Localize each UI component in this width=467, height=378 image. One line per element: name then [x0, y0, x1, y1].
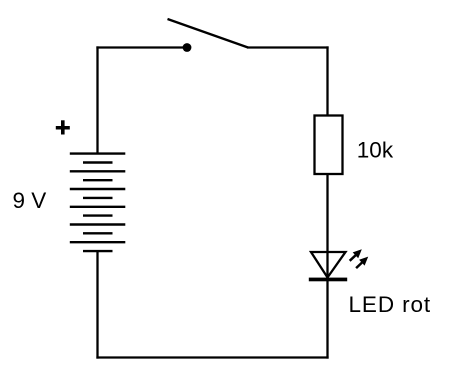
wire battery plus terminal up to top rail — [96, 46, 98, 153]
switch contact dot — [183, 43, 192, 52]
wire down to resistor — [326, 46, 328, 116]
battery plus polarity mark — [56, 120, 70, 134]
LED triangle anode — [311, 252, 346, 278]
svg-text:10k: 10k — [357, 138, 394, 163]
wire resistor to LED — [326, 174, 328, 278]
battery 9V cells — [70, 154, 126, 252]
wire LED to bottom rail — [326, 280, 328, 359]
LED cathode bar — [309, 278, 347, 282]
LED light emission arrow 1 — [350, 249, 362, 260]
resistor 10k body — [315, 116, 343, 175]
wire top rail right segment — [247, 46, 329, 48]
switch lever arm — [168, 19, 249, 48]
wire battery minus terminal down to bottom rail — [96, 251, 98, 359]
wire bottom rail — [96, 356, 328, 358]
wire top rail left segment — [96, 46, 184, 48]
svg-text:LED rot: LED rot — [349, 292, 432, 317]
svg-text:9 V: 9 V — [13, 188, 47, 213]
LED light emission arrow 2 — [356, 257, 368, 268]
